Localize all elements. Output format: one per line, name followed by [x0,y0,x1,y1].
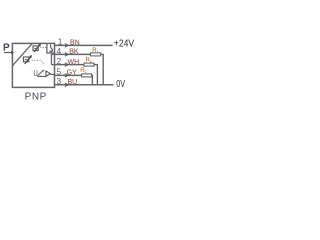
svg-text:U: U [34,68,38,78]
svg-text:WH: WH [68,59,80,66]
svg-text:GY: GY [67,70,77,77]
svg-text:PNP: PNP [25,92,47,103]
resistor RL (GY) [82,74,92,77]
resistor RL (WH) [84,63,94,66]
svg-text:RL: RL [86,58,93,64]
switch contact [49,44,53,53]
setpoint adjuster 2 [23,56,31,64]
sensor body box [12,43,54,87]
svg-text:BU: BU [68,79,78,86]
output switch box [47,43,55,53]
resistor RL (BK) [91,53,101,56]
internal output bus [50,54,52,64]
pin 4 arrow [65,53,68,57]
setpoint adjuster 1 [33,45,40,52]
wire GY resistor to drop [91,75,94,84]
svg-text:5: 5 [57,66,62,76]
wire WH resistor to drop [94,65,97,85]
svg-text:+24V: +24V [114,39,135,50]
wire pin2 internal stub [51,64,54,66]
svg-text:RL: RL [92,48,99,54]
svg-text:2: 2 [57,56,62,66]
svg-text:BK: BK [69,49,79,56]
wire BU pin3 / 0V rail [55,84,114,86]
pin 1 arrow [65,44,68,48]
adjuster 2 dotted link [32,59,41,61]
svg-text:0V: 0V [116,79,125,90]
wire BN pin1 [55,44,113,46]
wire BK pin4 [55,53,91,55]
svg-text:4: 4 [57,46,62,56]
svg-text:RL: RL [80,68,87,74]
output amplifier triangle [46,71,55,77]
adjuster 1 dotted link [40,47,46,49]
svg-text:BN: BN [70,40,80,47]
pressure input arrow [4,52,12,54]
transducer diagonal [12,43,32,65]
wire BK resistor to drop [101,54,104,84]
wire pin4 internal stub [51,53,54,55]
hysteresis symbol [37,70,46,76]
pin 3 arrow [65,83,68,87]
pin 5 arrow [65,74,68,78]
wire WH pin2 [55,64,85,66]
wire GY pin5 [55,74,82,76]
svg-text:3: 3 [57,76,62,86]
pin 2 arrow [65,63,68,67]
